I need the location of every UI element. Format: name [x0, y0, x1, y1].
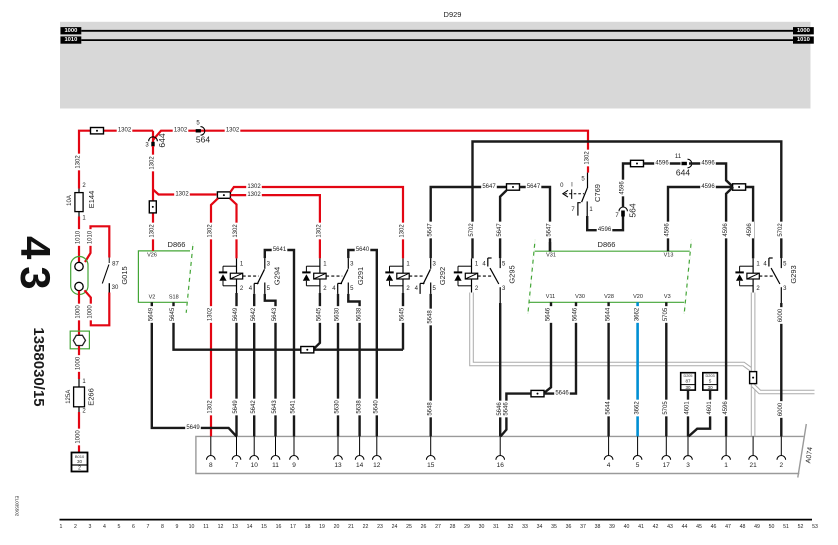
label 5643 b	[272, 399, 279, 416]
svg-text:4596: 4596	[620, 181, 626, 195]
svg-text:31: 31	[493, 524, 499, 530]
relay G291 coil	[314, 258, 326, 293]
relay G294 pin3	[265, 258, 271, 269]
wire 1000 to E266	[78, 354, 80, 380]
power rail band	[60, 22, 811, 109]
device D866 left box	[138, 242, 193, 313]
svg-text:47: 47	[725, 524, 731, 530]
svg-text:5702: 5702	[778, 223, 784, 237]
svg-text:5705: 5705	[663, 401, 669, 415]
svg-text:5641: 5641	[273, 247, 287, 253]
svg-text:1: 1	[724, 462, 728, 469]
label 6000 a	[778, 307, 785, 324]
connector A074 pin 7	[232, 436, 241, 469]
svg-text:1302: 1302	[400, 224, 406, 238]
label 1302 G292	[400, 223, 407, 240]
wire 1302 drop to V26	[152, 146, 154, 251]
relay G295 pin2 label	[475, 286, 479, 292]
relay G293 coil	[747, 258, 759, 292]
label 5644 b	[605, 400, 612, 417]
switch G015 pin 30	[109, 283, 119, 292]
svg-text:4596: 4596	[701, 184, 715, 190]
connector A074 pin 8	[207, 436, 216, 469]
svg-text:2: 2	[78, 466, 81, 472]
wire white G293 pin2 down	[751, 293, 756, 437]
node D929 label	[444, 10, 462, 19]
label 125A	[66, 390, 72, 404]
wire 1302 to G294	[230, 198, 237, 258]
svg-text:43: 43	[667, 524, 673, 530]
net tag 1000 right	[793, 27, 814, 34]
label 5645 G292	[400, 306, 407, 323]
svg-text:43: 43	[12, 236, 59, 297]
relay G293 pin5	[781, 258, 787, 268]
svg-text:G015: G015	[120, 266, 129, 284]
pin V11 label	[546, 294, 555, 300]
wire 5644 V28	[607, 302, 609, 436]
relay G294 pin1 label	[240, 261, 244, 267]
svg-text:EL035502: EL035502	[15, 496, 20, 517]
pin V2 label	[149, 295, 156, 301]
svg-text:30: 30	[708, 385, 714, 390]
wire 5643 G294 pin5 jog	[265, 294, 276, 437]
svg-text:5646: 5646	[503, 402, 509, 416]
page number 43	[12, 236, 59, 297]
svg-text:5643: 5643	[272, 307, 278, 321]
label 1302 long c	[208, 399, 215, 416]
relay G292 blade	[423, 269, 430, 284]
wire 1302 branch diagonal	[153, 190, 217, 195]
svg-text:45: 45	[696, 524, 702, 530]
svg-text:V26: V26	[147, 252, 157, 258]
wire white branch right	[753, 386, 814, 393]
label 1000 c	[76, 355, 83, 372]
relay G293 pin2 label	[756, 286, 760, 292]
label 5644 a	[605, 306, 612, 323]
svg-text:1302: 1302	[233, 224, 239, 238]
label 5649 horiz	[185, 425, 201, 431]
svg-text:17: 17	[290, 524, 296, 530]
svg-text:29: 29	[464, 524, 470, 530]
relay G292 coil	[397, 258, 409, 293]
svg-text:5642: 5642	[251, 307, 257, 321]
svg-text:2: 2	[779, 462, 783, 469]
label 1302 b	[173, 127, 189, 133]
label 5645 G291	[316, 306, 323, 323]
svg-text:3: 3	[686, 462, 690, 469]
svg-text:30: 30	[77, 459, 83, 464]
svg-text:V30: V30	[575, 294, 585, 300]
wire 5641 bracket	[265, 247, 294, 437]
label 1302 a	[117, 127, 133, 133]
switch G015 blade	[102, 265, 109, 284]
svg-text:25: 25	[406, 524, 412, 530]
svg-text:15: 15	[261, 524, 267, 530]
label 4596 b	[654, 160, 670, 166]
svg-text:19: 19	[319, 524, 325, 530]
net tag 1010 right	[793, 36, 814, 43]
svg-text:51: 51	[783, 524, 789, 530]
svg-text:4596: 4596	[723, 401, 729, 415]
wire 5642 G294 pin4	[253, 294, 255, 437]
connector on V26 wire	[149, 201, 156, 213]
svg-text:36: 36	[566, 524, 572, 530]
svg-text:33: 33	[522, 524, 528, 530]
svg-text:E266: E266	[86, 388, 95, 406]
label 1000 a	[76, 304, 83, 321]
svg-text:26: 26	[421, 524, 427, 530]
svg-text:4601: 4601	[707, 401, 713, 415]
label 1302 lower out	[246, 192, 262, 198]
svg-text:1010: 1010	[76, 230, 82, 244]
device D866 right box	[528, 240, 692, 314]
wire 1010 hook to switch	[85, 226, 109, 262]
connector on 1302 bus	[91, 128, 104, 134]
relay G291 pin4	[332, 283, 342, 294]
svg-text:11: 11	[203, 524, 208, 530]
svg-text:6000: 6000	[778, 308, 784, 322]
stub V31 top	[549, 242, 551, 251]
relay G293 actuator link	[759, 275, 773, 277]
relay G294 pin5	[265, 283, 271, 294]
wire 5645 bus	[174, 302, 404, 349]
wire 5638 G291 pin5 jog	[348, 294, 359, 437]
svg-text:1302: 1302	[76, 155, 82, 169]
svg-text:V20: V20	[633, 294, 643, 300]
relay G294 suppression diode	[219, 266, 237, 286]
wire 1000 switch return	[85, 290, 110, 325]
svg-text:1302: 1302	[208, 224, 214, 238]
relay G291 pin2 label	[323, 286, 327, 292]
label 5649 G294 a	[233, 306, 240, 323]
svg-text:39: 39	[609, 524, 615, 530]
label 5647 b	[526, 184, 542, 190]
svg-text:40: 40	[624, 524, 630, 530]
svg-text:5646: 5646	[546, 307, 552, 321]
terminal G015 lower	[75, 282, 83, 290]
switch C769 pin7	[571, 203, 580, 216]
connector A074 pin 12	[373, 436, 382, 469]
label 1302 long b	[208, 306, 215, 323]
label 4601 a	[685, 400, 692, 417]
doc id EL035502	[15, 496, 20, 517]
svg-text:8: 8	[161, 524, 164, 530]
svg-text:5702: 5702	[469, 223, 475, 237]
svg-text:49: 49	[754, 524, 760, 530]
wire 1302 upper out	[230, 187, 403, 258]
svg-text:2: 2	[74, 524, 77, 530]
svg-text:D866: D866	[598, 240, 616, 249]
svg-text:C769: C769	[593, 184, 602, 202]
svg-text:9: 9	[292, 462, 296, 469]
label 5638 a	[356, 306, 363, 323]
wire 5640 bracket	[348, 247, 377, 437]
wire 5647 G292 pin3 up	[431, 187, 507, 258]
wire 1000 down	[78, 291, 80, 334]
label 5648 a	[427, 309, 434, 326]
svg-text:5641: 5641	[291, 400, 297, 414]
label 4596 G293 vert	[747, 222, 754, 239]
wire 5647 to V31	[520, 187, 551, 251]
svg-text:5646: 5646	[573, 307, 579, 321]
fuse E266	[74, 379, 85, 412]
svg-text:27: 27	[435, 524, 441, 530]
svg-text:30: 30	[685, 385, 691, 390]
connector A074 pin 13	[334, 436, 343, 469]
svg-text:5644: 5644	[605, 401, 611, 415]
wire 4596 to 644	[644, 162, 681, 164]
svg-text:10A: 10A	[67, 195, 73, 206]
label 5649 V2 vert	[148, 306, 155, 323]
svg-text:18: 18	[305, 524, 311, 530]
connector A074 pin 1	[722, 436, 731, 469]
wire 5645 G291 pin2	[313, 293, 320, 350]
svg-text:5646: 5646	[497, 402, 503, 416]
label 5640 lower	[373, 399, 380, 416]
wire white from G295 pin2	[472, 293, 754, 372]
svg-text:44: 44	[682, 524, 688, 530]
switch C769 pin1	[587, 201, 593, 218]
relay G015 housing	[71, 257, 88, 295]
svg-text:4: 4	[607, 462, 611, 469]
svg-text:4596: 4596	[655, 161, 669, 167]
svg-text:5643: 5643	[272, 400, 278, 414]
label G015	[120, 266, 129, 284]
relay G294 pin4	[249, 283, 259, 294]
wire 4596 C769 to 564	[587, 213, 623, 230]
relay G291 label	[356, 267, 365, 285]
relay G292 suppression diode	[385, 266, 403, 286]
label 1302 on C769 drop	[585, 150, 592, 167]
svg-text:5638: 5638	[356, 400, 362, 414]
svg-text:G292: G292	[438, 267, 447, 285]
svg-text:E144: E144	[87, 191, 96, 209]
ruler line	[60, 519, 813, 521]
svg-text:1302: 1302	[175, 192, 189, 198]
wire 3662 V20 blue	[636, 302, 639, 436]
diagram number 1358030/15	[30, 327, 47, 406]
label 5702 right	[778, 222, 785, 239]
label 4596 pin1 b	[723, 400, 730, 417]
relay G295 pin5	[500, 258, 506, 268]
connector 1302 splitter	[217, 192, 230, 198]
label 4596 c	[700, 160, 716, 166]
svg-text:1010: 1010	[64, 37, 77, 43]
svg-text:32: 32	[508, 524, 514, 530]
terminal B010	[72, 453, 88, 472]
connector A074 pin 16	[496, 436, 505, 469]
label 5642 b	[251, 399, 258, 416]
svg-text:16: 16	[276, 524, 282, 530]
relay G292 label	[438, 267, 447, 285]
wire 1302 long drop to pin8	[211, 198, 218, 436]
label 5705 b	[663, 400, 670, 417]
relay G291 pin5	[348, 283, 354, 294]
label 1302 G291	[316, 223, 323, 240]
svg-text:125A: 125A	[66, 390, 72, 404]
svg-text:D866: D866	[168, 240, 186, 249]
relay G291 actuator link	[326, 275, 342, 277]
svg-text:7: 7	[235, 462, 239, 469]
svg-text:1000: 1000	[76, 305, 82, 319]
pin V20 label	[633, 294, 643, 300]
label 1302 vert E144	[76, 154, 83, 171]
label 5648 b	[427, 401, 434, 418]
wire 5646 link right	[544, 302, 576, 393]
relay G294 coil	[230, 258, 242, 293]
relay G291 pin1 label	[323, 261, 327, 267]
connector A074 pin 21	[749, 436, 758, 469]
svg-text:11: 11	[675, 154, 682, 160]
connector A074 pin 3	[684, 436, 693, 469]
svg-text:21: 21	[348, 524, 354, 530]
svg-text:14: 14	[247, 524, 253, 530]
relay G295 pin4	[482, 258, 491, 267]
device D866 right label	[598, 240, 616, 249]
connector on white wire	[750, 372, 757, 384]
connector A074 pin 9	[290, 436, 299, 469]
pin V13 label	[664, 252, 674, 258]
relay G293 suppression diode	[735, 266, 753, 286]
svg-text:5649: 5649	[186, 425, 200, 431]
svg-text:5644: 5644	[605, 307, 611, 321]
relay G293 pin3	[781, 286, 787, 303]
svg-text:D929: D929	[444, 10, 462, 19]
svg-text:7: 7	[147, 524, 150, 530]
svg-text:10: 10	[251, 462, 259, 469]
svg-text:6: 6	[132, 524, 135, 530]
pin V3 label	[664, 294, 671, 300]
wire 5647 to G295 pin5	[500, 190, 506, 258]
relay G291 suppression diode	[302, 266, 320, 286]
relay G292 pin5	[431, 283, 437, 294]
svg-text:5640: 5640	[374, 400, 380, 414]
svg-text:1010: 1010	[797, 37, 810, 43]
label 3662 b	[634, 400, 641, 417]
label 1302 c	[225, 127, 241, 133]
pin V28 label	[604, 294, 614, 300]
svg-text:37: 37	[580, 524, 586, 530]
connector A074 pin 17	[662, 436, 671, 469]
svg-text:3662: 3662	[634, 401, 640, 415]
svg-text:V31: V31	[546, 252, 556, 258]
svg-text:V2: V2	[149, 295, 156, 301]
svg-text:4: 4	[103, 524, 106, 530]
svg-text:28: 28	[450, 524, 456, 530]
fuse E144	[75, 189, 83, 217]
svg-text:1: 1	[60, 524, 63, 530]
connector on 5646 link	[531, 390, 544, 396]
connector A074 pin 10	[250, 436, 259, 469]
svg-text:16: 16	[497, 462, 505, 469]
connector on 4596	[631, 160, 644, 166]
label 5646 V11	[546, 306, 553, 323]
svg-text:V3: V3	[664, 294, 671, 300]
relay G293 pin4	[763, 258, 772, 267]
svg-text:V28: V28	[604, 294, 614, 300]
svg-text:5645: 5645	[317, 307, 323, 321]
wire 5646 G295 pin3	[499, 303, 501, 436]
svg-text:14: 14	[356, 462, 364, 469]
svg-text:12: 12	[218, 524, 224, 530]
connector 644 pin3 branch	[145, 131, 167, 149]
connector A074 pin 5	[633, 436, 642, 469]
label 4596 d	[700, 184, 716, 190]
label 1302 near V26	[150, 223, 157, 240]
connector A074 pin 2	[777, 436, 786, 469]
relay G291 blade	[341, 269, 348, 284]
relay G292 pin1 label	[406, 261, 410, 267]
svg-text:10: 10	[189, 524, 195, 530]
svg-text:8: 8	[209, 462, 213, 469]
wire 6000 G293 pin3	[780, 303, 782, 436]
connector on 5647	[507, 184, 520, 190]
label 5705 a	[663, 306, 670, 323]
svg-text:3662: 3662	[634, 307, 640, 321]
label 3662 a	[634, 306, 641, 323]
svg-text:1000: 1000	[88, 305, 94, 319]
label 5630 a	[335, 306, 342, 323]
svg-text:30: 30	[112, 285, 119, 291]
svg-text:5649: 5649	[233, 307, 239, 321]
svg-text:5649: 5649	[233, 400, 239, 414]
svg-text:5647: 5647	[497, 223, 503, 237]
svg-text:24: 24	[392, 524, 398, 530]
label 5646 V30	[573, 306, 580, 323]
relay G295 coil	[465, 258, 477, 292]
device D866 left label	[168, 240, 186, 249]
svg-text:1000: 1000	[76, 356, 82, 370]
svg-text:V11: V11	[546, 294, 555, 300]
label 10A	[67, 195, 73, 206]
svg-text:5646: 5646	[555, 391, 569, 397]
net tag 1010 left	[61, 36, 82, 43]
svg-text:13: 13	[232, 524, 238, 530]
label 5646 x2	[497, 401, 510, 418]
wire 5630 G291 pin4	[337, 294, 339, 437]
svg-text:5645: 5645	[400, 307, 406, 321]
relay G291 pin3	[348, 258, 354, 269]
svg-text:21: 21	[749, 462, 757, 469]
svg-text:D205: D205	[683, 374, 692, 378]
svg-text:1302: 1302	[585, 151, 591, 165]
label 1 E266	[82, 379, 86, 385]
bolt terminal box	[70, 331, 89, 349]
svg-text:15: 15	[427, 462, 435, 469]
svg-text:4596: 4596	[723, 223, 729, 237]
label 1302 d	[174, 191, 190, 197]
svg-text:5630: 5630	[335, 400, 341, 414]
svg-text:4596: 4596	[747, 223, 753, 237]
wire 5646 V11	[544, 302, 551, 393]
svg-text:87: 87	[685, 378, 691, 383]
svg-text:5630: 5630	[335, 307, 341, 321]
connector A074 box	[196, 424, 806, 478]
svg-text:3: 3	[89, 524, 92, 530]
ruler numbers	[60, 524, 818, 530]
svg-text:5648: 5648	[427, 402, 433, 416]
wire 5649 G294 pin2	[235, 293, 237, 436]
svg-text:11: 11	[272, 462, 279, 469]
wire 4596 down to pin1	[726, 187, 733, 436]
label 1302 upper out	[246, 184, 262, 190]
svg-text:564: 564	[196, 135, 210, 145]
svg-text:1000: 1000	[64, 28, 77, 34]
svg-text:1302: 1302	[150, 156, 156, 170]
svg-text:5642: 5642	[251, 400, 257, 414]
pin S18 label	[169, 295, 179, 301]
relay G295 label	[508, 265, 517, 283]
